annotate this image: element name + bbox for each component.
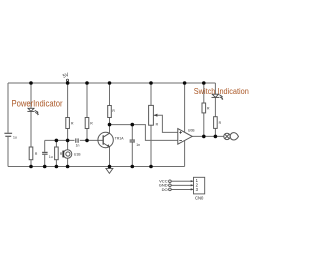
svg-text:TR1A: TR1A (115, 136, 124, 140)
svg-text:DO: DO (162, 187, 168, 192)
svg-text:PowerIndicator: PowerIndicator (12, 99, 63, 109)
svg-text:U0B: U0B (188, 129, 195, 133)
svg-text:1n: 1n (136, 143, 140, 147)
svg-text:1n: 1n (76, 144, 80, 148)
svg-text:Switch Indication: Switch Indication (194, 87, 249, 96)
svg-text:1u: 1u (13, 136, 17, 140)
svg-text:U1B: U1B (74, 152, 81, 156)
svg-text:1u: 1u (49, 155, 53, 159)
svg-text:CN0: CN0 (195, 196, 204, 201)
